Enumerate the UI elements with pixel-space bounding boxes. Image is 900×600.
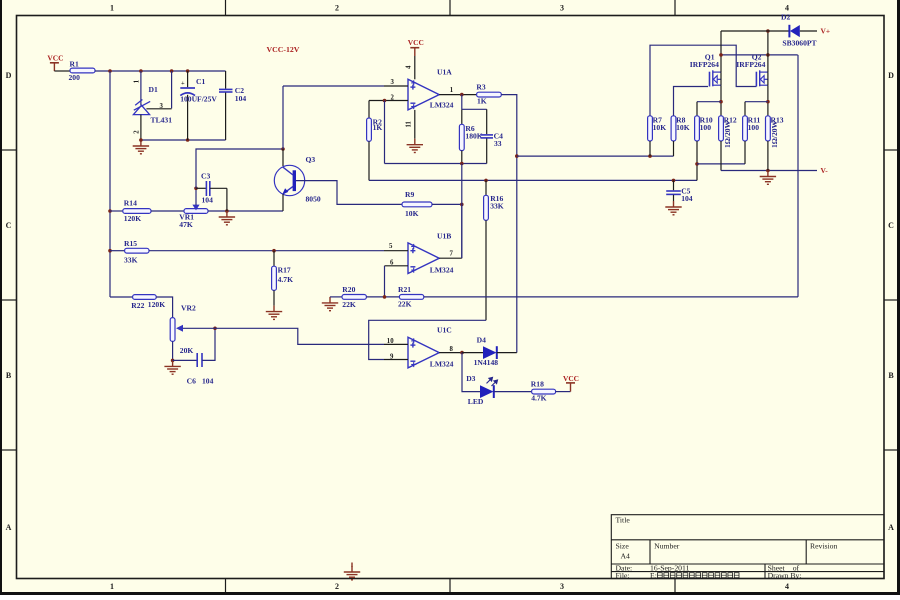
svg-text:R1: R1 (70, 59, 79, 68)
wire R20 to R21 (366, 296, 399, 298)
capacitor C3 104 (196, 172, 227, 211)
svg-text:V+: V+ (821, 27, 831, 36)
wire pin3 to Q3 collector net (283, 85, 384, 87)
svg-text:R9: R9 (405, 190, 414, 199)
resistor R18 (531, 379, 556, 402)
node U1A out (460, 93, 464, 97)
svg-text:C6: C6 (187, 376, 196, 385)
resistor R22 (131, 295, 165, 310)
wire gate drive to R7 R8 (517, 155, 674, 157)
wire VR2 bottom to C6 (173, 359, 197, 361)
resistor R12 shunt (719, 116, 737, 148)
wire VR1 right to Q3 emitter (208, 210, 283, 212)
wire Q2 source down (767, 85, 769, 116)
svg-text:7: 7 (450, 250, 454, 257)
svg-text:+: + (181, 80, 185, 87)
wire R3 to gate-drive vertical (501, 95, 517, 353)
wire rail corner to R22 (110, 296, 133, 298)
op-amp U1B (408, 231, 451, 273)
resistor R11 100 (743, 116, 761, 141)
wire feedback vertical R6 branch (461, 95, 463, 110)
node D1 bottom (139, 138, 143, 142)
title block text (616, 515, 838, 580)
svg-text:4: 4 (785, 582, 789, 591)
diode D1 TL431 shunt regulator (133, 71, 172, 140)
node drain bus cross (766, 53, 770, 57)
resistor R6 180K (459, 109, 482, 163)
resistor R13 shunt (766, 116, 784, 148)
node C1 top (186, 69, 190, 73)
wire Q3 collector riser (282, 149, 284, 166)
svg-text:1: 1 (134, 79, 141, 83)
power VCC (R1 input) (47, 53, 63, 71)
wire R16 to U1C pin9 (369, 320, 486, 359)
svg-text:33K: 33K (490, 201, 504, 210)
svg-text:R22: R22 (131, 301, 144, 310)
svg-text:1: 1 (450, 87, 454, 94)
wire D1 bottom rail (141, 139, 226, 141)
node R17 top (272, 249, 276, 253)
resistor R8 10K (671, 116, 690, 141)
wire pin6 to R20 R21 node (384, 266, 386, 297)
ground U1A pin11 (407, 139, 423, 153)
wire sense rail R2 to R10 (369, 179, 697, 181)
wire right riser (797, 55, 799, 297)
svg-text:R18: R18 (531, 379, 544, 388)
svg-text:VCC: VCC (408, 38, 424, 47)
wire R7 bottom (649, 141, 651, 156)
svg-text:120K: 120K (148, 300, 165, 309)
svg-text:R14: R14 (124, 198, 137, 207)
resistor R15 (124, 239, 149, 265)
svg-text:10K: 10K (676, 123, 690, 132)
svg-text:104: 104 (235, 94, 247, 103)
node pin6 junction (383, 295, 387, 299)
wire rail to R15 (110, 250, 125, 252)
wire R15 to U1B pin5 (149, 250, 384, 252)
power VCC U1A (408, 38, 424, 56)
svg-text:R15: R15 (124, 239, 137, 248)
wire U1A pin4 VCC (414, 56, 416, 79)
wire Q1 drain riser (720, 31, 722, 72)
svg-text:3: 3 (560, 4, 564, 13)
svg-text:100: 100 (748, 123, 760, 132)
wire R10 bottom to sense (696, 141, 698, 180)
svg-text:104: 104 (202, 195, 214, 204)
wire R11 top riser (744, 102, 746, 116)
resistor R3 (476, 83, 501, 106)
wire R7 top to Q2 gate (650, 45, 756, 116)
svg-text:104: 104 (202, 376, 214, 385)
svg-text:2: 2 (335, 4, 339, 13)
wire Q3 base to R9 (296, 181, 402, 205)
svg-text:D: D (6, 71, 12, 80)
svg-text:C3: C3 (201, 172, 210, 181)
svg-text:Q3: Q3 (306, 155, 316, 164)
potentiometer VR2 20K (170, 303, 196, 355)
capacitor C2 104 (219, 71, 246, 140)
capacitor C4 33 (462, 109, 503, 163)
transistor Q3 8050 (274, 155, 321, 204)
wire U1C pin9 stub (384, 359, 408, 361)
svg-text:47K: 47K (179, 220, 193, 229)
svg-text:Size: Size (616, 541, 630, 550)
svg-text:20K: 20K (180, 346, 194, 355)
diode D4 1N4148 (462, 336, 517, 367)
resistor R2 1K (367, 101, 383, 181)
svg-text:SB3060PT: SB3060PT (782, 39, 816, 48)
svg-text:1Ω/20W: 1Ω/20W (723, 120, 732, 148)
svg-text:22K: 22K (398, 300, 412, 309)
power VCC R18 (566, 383, 575, 392)
resistor R9 (402, 190, 432, 218)
ground R20 (322, 297, 338, 311)
ground sheet bottom stem (351, 563, 353, 568)
wire U1A pin11 (414, 110, 416, 139)
svg-text:R20: R20 (342, 285, 355, 294)
node R7 bottom (648, 154, 652, 158)
svg-text:VR2: VR2 (181, 303, 196, 312)
svg-text:TL431: TL431 (151, 116, 173, 125)
wire R14 to VR1 (151, 210, 184, 212)
svg-text:8: 8 (450, 346, 454, 353)
capacitor C1 100UF/25V (180, 71, 217, 140)
node pin3 riser top (170, 69, 174, 73)
sheet edge strips (0, 0, 2, 595)
wire U1C out to LED (462, 353, 480, 392)
svg-text:VCC: VCC (47, 53, 63, 62)
svg-text:LM324: LM324 (430, 100, 454, 109)
svg-text:1: 1 (110, 4, 114, 13)
svg-text:C1: C1 (196, 77, 205, 86)
ground V- rail (760, 171, 776, 185)
resistor R21 (398, 285, 424, 308)
wire top rail to C2 (95, 70, 226, 72)
title block (611, 515, 884, 579)
svg-text:1K: 1K (373, 123, 383, 132)
ground D1 (133, 140, 149, 154)
svg-text:120K: 120K (124, 214, 141, 223)
svg-text:104: 104 (681, 194, 693, 203)
svg-text:VCC-12V: VCC-12V (267, 45, 300, 54)
node VR2 ground (171, 359, 175, 363)
svg-text:10K: 10K (653, 123, 667, 132)
wire shunt bottoms to V- (721, 170, 817, 172)
node R10 R11 (695, 162, 699, 166)
wire R10 to R11 bottoms (697, 163, 745, 165)
svg-text:V-: V- (821, 166, 829, 175)
node Q1 source (719, 100, 723, 104)
node C1 bottom (186, 138, 190, 142)
wire rail to R14 (110, 210, 123, 212)
wire R21 to sense right riser (424, 296, 798, 298)
wire C3 top riser (196, 149, 283, 188)
wire R9 to node (432, 203, 462, 205)
wire VR2 bottom (172, 341, 174, 360)
wire feedback down to U1B out (461, 164, 463, 259)
svg-text:R21: R21 (398, 285, 411, 294)
wire U1C output (439, 352, 462, 354)
wire R12 bottom (720, 141, 722, 171)
svg-text:3: 3 (560, 582, 564, 591)
wire left rail (109, 71, 111, 297)
node R16 top (484, 179, 488, 183)
op-amp U1C (408, 326, 452, 368)
wire R11 bottom riser (744, 141, 746, 164)
node Q3 collector branch (281, 147, 285, 151)
svg-text:22K: 22K (342, 300, 356, 309)
svg-text:Revision: Revision (810, 541, 837, 550)
svg-text:1N4148: 1N4148 (474, 358, 499, 367)
wire Q2 drain riser (767, 31, 769, 72)
svg-text:E:: E: (650, 571, 657, 580)
node D1 top (139, 69, 143, 73)
svg-text:180K: 180K (465, 132, 482, 141)
transistor Q1 IRFP264 (690, 53, 721, 87)
svg-text:200: 200 (69, 73, 81, 82)
wire U1A pin3 stub (384, 85, 408, 87)
wire C6 to wiper net (202, 328, 215, 360)
svg-text:IRFP264: IRFP264 (690, 60, 719, 69)
node rail R15 (108, 249, 112, 253)
svg-text:Drawn By:: Drawn By: (768, 571, 802, 580)
svg-text:LM324: LM324 (430, 360, 454, 369)
wire drain bus (721, 54, 798, 56)
wire U1B pin5 stub (384, 250, 408, 252)
resistor R7 10K (648, 116, 667, 141)
wire pin3 riser (171, 71, 173, 108)
svg-text:D4: D4 (477, 336, 486, 345)
svg-text:3: 3 (160, 103, 164, 110)
node Q1 drain (719, 53, 723, 57)
node gate drive branch (515, 154, 519, 158)
op-amp U1A (408, 68, 452, 110)
svg-text:11: 11 (406, 120, 413, 127)
node rail top (108, 69, 112, 73)
svg-text:4.7K: 4.7K (531, 393, 546, 402)
capacitor C5 104 (666, 180, 693, 202)
wire Q1 source down (720, 85, 722, 116)
node D2 tap (766, 29, 770, 33)
svg-text:LED: LED (468, 397, 484, 406)
svg-text:B: B (6, 371, 12, 380)
svg-text:10K: 10K (405, 209, 419, 218)
svg-text:D2: D2 (781, 13, 790, 22)
ground VR2 (164, 360, 180, 374)
wire LED to R18 (494, 391, 532, 393)
svg-text:D: D (888, 71, 894, 80)
wire pin2 feedback riser (384, 101, 386, 164)
wire Q2 source to R11 (745, 101, 768, 103)
wire VR1 wiper to C3 node (195, 188, 197, 205)
node wiper C6 (213, 327, 217, 331)
svg-text:A: A (888, 523, 894, 532)
node R9 feedback (460, 203, 464, 207)
ground sheet bottom (344, 566, 360, 580)
wire R8 bottom (673, 141, 675, 156)
svg-text:D1: D1 (149, 85, 158, 94)
resistor R17 4.7K (272, 251, 293, 306)
svg-text:100: 100 (700, 123, 712, 132)
svg-text:2: 2 (335, 582, 339, 591)
ground C5 (665, 201, 681, 215)
wire Q1 drain to D2 (721, 30, 789, 32)
svg-text:U1B: U1B (437, 231, 451, 240)
node C5 tap (672, 179, 676, 183)
wire R10 top riser (696, 102, 698, 116)
wire D2 to V+ (800, 30, 817, 32)
wire VR2 wiper to U1C pin10 (183, 328, 384, 344)
resistor R14 (123, 198, 151, 223)
wire VCC to R1 (54, 70, 70, 72)
wire Q3 emitter (282, 194, 284, 211)
node pin2 feedback (383, 99, 387, 103)
resistor R16 33K (484, 180, 504, 320)
svg-text:C: C (6, 221, 12, 230)
svg-text:IRFP264: IRFP264 (736, 60, 765, 69)
svg-text:1K: 1K (477, 97, 487, 106)
node Q2 source (766, 100, 770, 104)
LED D3 (466, 374, 497, 406)
node C3 wiper (194, 187, 198, 191)
svg-text:33K: 33K (124, 256, 138, 265)
svg-text:4.7K: 4.7K (278, 275, 293, 284)
resistor R20 (342, 285, 366, 309)
node R13 ground (766, 169, 770, 173)
svg-text:D3: D3 (466, 374, 475, 383)
wire U1C pin10 stub (384, 343, 408, 345)
wire ground to R20 (330, 296, 342, 298)
resistor R1 (69, 59, 96, 82)
potentiometer VR1 47K (179, 205, 208, 230)
wire R18 to VCC (556, 391, 571, 393)
svg-text:U1A: U1A (437, 68, 452, 77)
svg-text:A4: A4 (621, 551, 631, 560)
svg-text:3: 3 (391, 79, 395, 86)
svg-text:C: C (888, 221, 894, 230)
svg-text:B: B (888, 371, 894, 380)
wire U1A output (439, 94, 476, 96)
ground VR1 row (219, 211, 235, 225)
resistor R10 100 (695, 116, 713, 141)
wire pin3 riser down (282, 86, 284, 149)
wire U1A pin2 stub (369, 100, 408, 102)
svg-text:100UF/25V: 100UF/25V (180, 94, 217, 103)
wire U1B out riser (461, 204, 463, 258)
svg-text:VCC: VCC (563, 374, 579, 383)
wire R8 top to Q1 gate (674, 87, 709, 116)
transistor Q2 IRFP264 (736, 53, 768, 87)
svg-text:R17: R17 (278, 265, 291, 274)
ground R17 (266, 306, 282, 320)
svg-text:1: 1 (110, 582, 114, 591)
svg-text:Title: Title (616, 515, 631, 524)
svg-text:A: A (6, 523, 12, 532)
wire U1B pin6 stub (385, 265, 409, 267)
node R6 C4 bottom (460, 162, 464, 166)
node U1C out (460, 351, 464, 355)
node VR1 ground tap (225, 209, 229, 213)
svg-text:4: 4 (785, 4, 789, 13)
diode D2 SB3060PT (781, 13, 817, 48)
wire R13 bottom riser (767, 141, 769, 171)
svg-text:4: 4 (406, 65, 413, 69)
svg-text:5: 5 (389, 243, 393, 250)
svg-text:U1C: U1C (437, 326, 452, 335)
svg-text:Number: Number (654, 541, 680, 550)
svg-text:LM324: LM324 (430, 265, 454, 274)
svg-text:R3: R3 (476, 83, 485, 92)
wire U1B output (439, 257, 462, 259)
svg-text:33: 33 (494, 139, 502, 148)
svg-text:2: 2 (134, 130, 141, 134)
wire R22 to VR2 (156, 297, 172, 318)
svg-text:1Ω/20W: 1Ω/20W (770, 120, 779, 148)
svg-text:8050: 8050 (306, 195, 321, 204)
wire Q1 source to R10 (697, 101, 721, 103)
wire feedback bottom (385, 163, 487, 165)
svg-text:File:: File: (616, 571, 630, 580)
capacitor C6 104 (187, 353, 214, 385)
node rail R14 (108, 209, 112, 213)
